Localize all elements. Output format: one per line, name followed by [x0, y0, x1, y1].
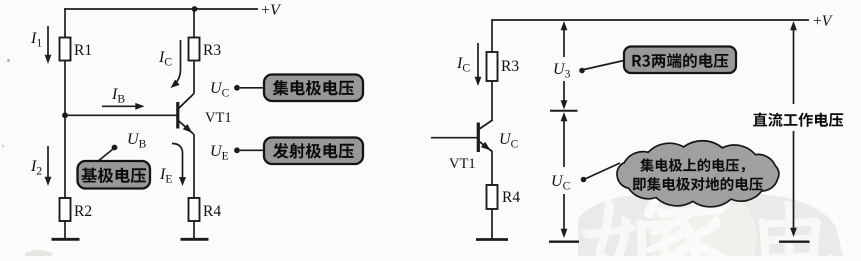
cloud callout 集电极上的电压，即集电极对地的电压 — [581, 141, 779, 207]
svg-text:R4: R4 — [502, 189, 520, 206]
label callout box R3两端的电压 (voltage across R3) — [579, 47, 736, 74]
svg-text:R2: R2 — [74, 203, 92, 220]
current arrow I1 — [30, 26, 51, 64]
wire: R3 to collector — [491, 81, 493, 121]
dimension line U3: across R3 (top segment) — [550, 21, 577, 110]
svg-text:+V: +V — [813, 13, 833, 30]
resistor R4 (right circuit) — [487, 185, 521, 209]
dimension line UC: collector to ground (bottom segment) — [548, 112, 578, 238]
resistor R1 — [60, 38, 93, 61]
wire: R2 to ground — [64, 221, 66, 239]
svg-text:IC: IC — [158, 49, 172, 69]
wire: base stub (right circuit) — [431, 137, 477, 139]
svg-text:IE: IE — [159, 166, 172, 186]
wire: base wire from divider to VT1 — [65, 114, 177, 116]
svg-text:VT1: VT1 — [205, 110, 232, 126]
label 直流工作电压 — [753, 113, 843, 127]
svg-text:UC: UC — [210, 80, 230, 100]
svg-text:R1: R1 — [74, 42, 92, 59]
svg-text:IB: IB — [111, 86, 125, 106]
resistor R3 (right circuit) — [487, 52, 520, 81]
node: junction dot rail to R3 branch — [192, 6, 198, 12]
current arrow IB — [102, 86, 145, 110]
transistor VT1 (left circuit) — [178, 94, 232, 135]
ground: under R2 — [52, 238, 80, 241]
ground: under R4 (left circuit) — [181, 238, 209, 241]
wire: R4 to ground (right circuit) — [491, 209, 493, 239]
wire: collector to R3 — [193, 61, 195, 94]
current arrow I2 — [30, 146, 51, 186]
svg-text:+V: +V — [261, 2, 282, 19]
svg-text:UE: UE — [210, 143, 229, 163]
label UB with callout box 基极电压 (base voltage) — [78, 131, 151, 189]
wire: emitter down to R4 — [193, 134, 195, 198]
wire: R1 down to R2 (divider branch) — [64, 61, 66, 199]
current arrow IC — [158, 40, 181, 88]
svg-text:R3: R3 — [203, 42, 221, 59]
ground: under R4 (right circuit) — [476, 238, 508, 241]
svg-text:UB: UB — [127, 131, 147, 151]
svg-text:I1: I1 — [30, 30, 42, 50]
wire: top supply rail (left circuit) — [64, 8, 258, 10]
current arrow IC (right circuit) — [456, 43, 481, 86]
tick: ground reference for DC working voltage — [779, 240, 810, 242]
svg-text:I2: I2 — [30, 158, 42, 178]
wire: top supply rail (right circuit) — [492, 19, 809, 21]
wire: rail down to R1 — [64, 8, 66, 37]
wire: R3 top to rail — [193, 9, 195, 38]
svg-text:UC: UC — [499, 131, 519, 151]
label UE with callout box 发射极电压 (emitter voltage) — [210, 138, 363, 165]
node: base junction dot — [62, 112, 68, 118]
resistor R2 — [60, 198, 93, 221]
dimension line 直流工作电压 (DC working voltage, rail to ground) — [790, 21, 797, 237]
label UC with callout box 集电极电压 (collector voltage) — [210, 75, 363, 102]
svg-text:R4: R4 — [203, 203, 221, 220]
current arrow IE — [159, 144, 186, 187]
svg-text:R3: R3 — [501, 58, 519, 75]
resistor R3 (left circuit) — [189, 38, 222, 61]
tick: division between U3 and UC — [550, 110, 578, 112]
resistor R4 (left circuit) — [189, 198, 222, 221]
wire: R4 to ground — [193, 221, 195, 239]
transistor VT1 (right circuit) — [449, 120, 493, 172]
svg-text:VT1: VT1 — [449, 156, 476, 172]
wire: rail down to R3 — [491, 19, 493, 52]
tick: ground reference under UC dimension — [549, 240, 579, 242]
wire: emitter down to R4 — [491, 151, 493, 186]
svg-text:IC: IC — [456, 55, 470, 75]
